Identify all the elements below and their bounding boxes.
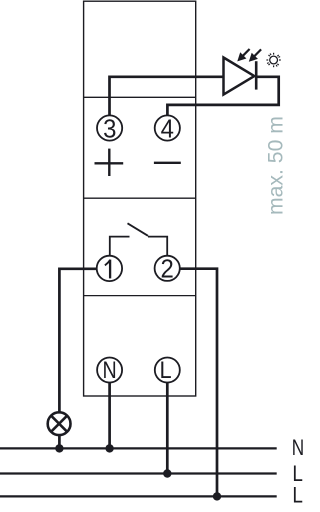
svg-text:max. 50 m: max. 50 m xyxy=(264,116,287,215)
switch contact xyxy=(110,223,167,255)
device outline box xyxy=(84,1,196,396)
junction dot L wire on L rail xyxy=(163,469,171,477)
N rail xyxy=(0,447,277,449)
svg-text:L: L xyxy=(160,356,172,383)
svg-text:2: 2 xyxy=(161,255,174,284)
terminal N xyxy=(97,356,122,383)
photodiode triangle xyxy=(224,58,255,95)
svg-text:N: N xyxy=(292,436,304,461)
plus polarity mark xyxy=(95,149,124,176)
wire terminal 3 up and right to photodiode anode xyxy=(110,77,223,116)
sun daylight symbol xyxy=(266,53,280,67)
N rail label xyxy=(292,436,304,461)
wire terminal L to L rail xyxy=(166,383,169,474)
divider under switch section xyxy=(84,295,196,297)
L rail xyxy=(0,472,277,474)
minus polarity mark xyxy=(154,162,181,164)
junction dot lamp on N rail xyxy=(55,444,63,452)
wire terminal 2 right and down to second L rail xyxy=(180,269,217,497)
terminal 4 xyxy=(155,114,180,143)
light arrow 1 xyxy=(237,49,249,61)
junction dot terminal 2 wire on second L rail xyxy=(213,492,221,500)
svg-text:N: N xyxy=(103,356,117,383)
divider under power section xyxy=(84,197,196,199)
svg-text:4: 4 xyxy=(161,114,174,143)
terminal 3 xyxy=(97,114,122,143)
L rail label xyxy=(292,462,303,487)
wire terminal 1 left and down to lamp xyxy=(59,269,96,412)
terminal L xyxy=(155,356,180,383)
second L rail label xyxy=(292,483,303,508)
wire lamp to N rail xyxy=(58,435,61,448)
divider under sensor section xyxy=(84,96,196,98)
wire terminal N to N rail xyxy=(108,383,111,449)
wire photodiode cathode right, down and back to terminal 4 xyxy=(167,77,278,116)
svg-text:3: 3 xyxy=(103,114,116,143)
junction dot N wire on N rail xyxy=(105,444,113,452)
lamp xyxy=(48,412,71,435)
terminal 2 xyxy=(155,255,180,284)
light arrow 2 xyxy=(249,49,261,61)
svg-text:L: L xyxy=(292,483,303,508)
second L rail xyxy=(0,495,277,497)
terminal 1 xyxy=(97,256,122,281)
photodiode cathode bar xyxy=(255,61,258,89)
